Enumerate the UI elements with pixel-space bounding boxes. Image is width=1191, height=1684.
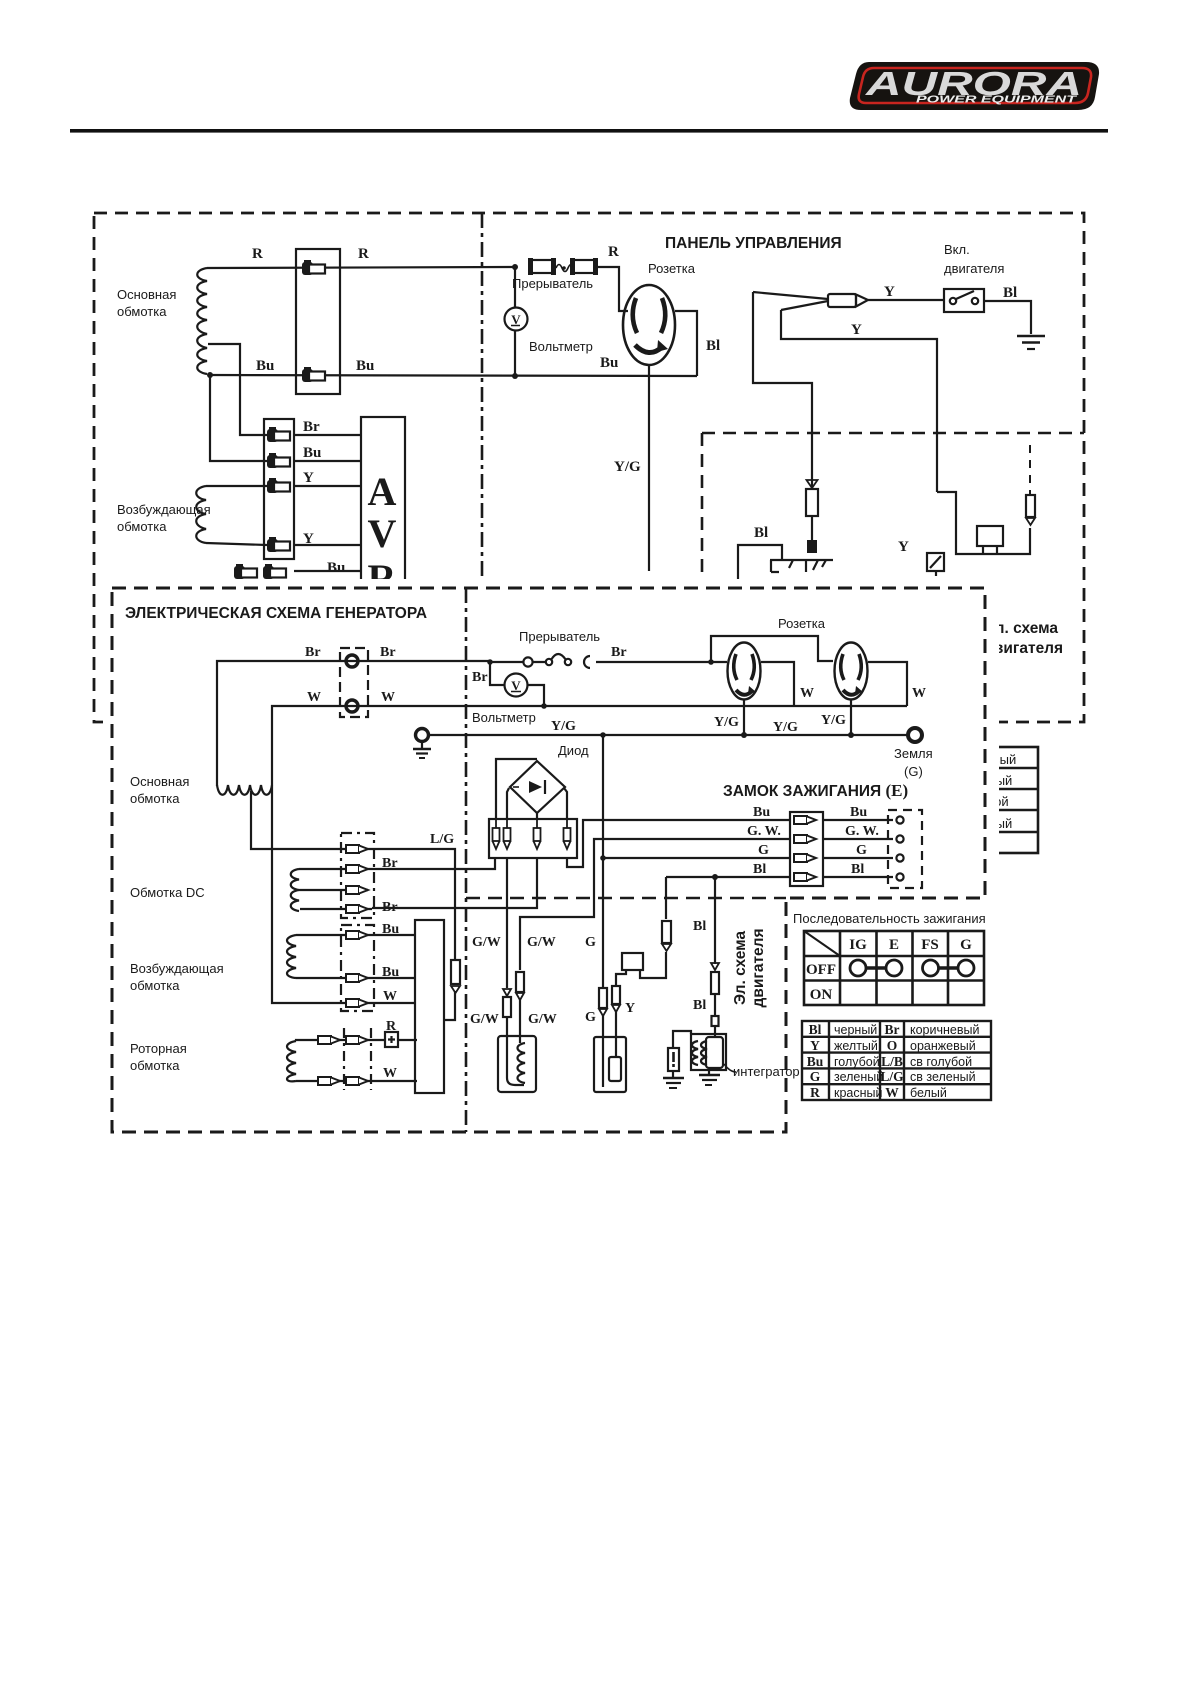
wire W (d2) <box>272 706 907 786</box>
svg-text:ON: ON <box>810 987 833 1003</box>
breaker (d2) <box>490 661 546 663</box>
svg-text:W: W <box>381 690 395 705</box>
svg-text:G: G <box>585 1010 596 1025</box>
connector pins K1 <box>302 260 325 275</box>
wire Y to switch <box>868 299 944 301</box>
svg-text:оранжевый: оранжевый <box>910 1039 976 1053</box>
svg-text:G/W: G/W <box>470 1012 499 1027</box>
svg-text:Y/G: Y/G <box>821 713 846 728</box>
wire Bu bottom from main winding to socket corner <box>209 375 697 376</box>
voltmeter circle (d2) <box>505 674 528 697</box>
main winding coil (d2) <box>217 785 272 795</box>
excitation winding coil (d1) <box>196 486 206 543</box>
diode connector box <box>489 819 577 858</box>
plug terminal <box>807 540 817 553</box>
svg-text:обмотка: обмотка <box>130 978 180 993</box>
svg-text:Bu: Bu <box>807 1054 824 1069</box>
diode symbol <box>529 781 542 793</box>
svg-text:обмотка: обмотка <box>130 791 180 806</box>
wire Br to AVR <box>294 434 361 436</box>
junction R-breaker <box>512 264 518 270</box>
svg-text:Прерыватель: Прерыватель <box>519 629 600 644</box>
svg-text:G: G <box>585 935 596 950</box>
diagram2 internal divider vertical (dash-dot) <box>465 588 468 1132</box>
socket top loop wire <box>711 636 833 662</box>
svg-text:Bu: Bu <box>382 922 399 937</box>
wire diode to Bu row <box>567 820 790 867</box>
svg-text:E: E <box>889 937 899 953</box>
svg-text:белый: белый <box>910 1086 947 1100</box>
colour legend table <box>802 1021 991 1100</box>
svg-text:Y: Y <box>810 1038 820 1053</box>
svg-text:Br: Br <box>611 645 627 660</box>
right connector (engine) <box>1026 495 1035 517</box>
svg-text:OFF: OFF <box>806 962 836 978</box>
svg-text:W: W <box>383 989 397 1004</box>
rotor block dashed columns <box>344 1028 371 1090</box>
junction G wire <box>600 732 606 738</box>
junction Bu <box>207 372 213 378</box>
excitation pins <box>346 931 368 939</box>
svg-text:Y: Y <box>851 322 862 338</box>
wire Bl to ground <box>984 301 1031 334</box>
svg-text:V: V <box>511 312 521 327</box>
svg-text:O: O <box>887 1038 898 1053</box>
diagram2 dashed border <box>112 588 985 1132</box>
OFF contact circles <box>850 960 974 976</box>
svg-text:Bu: Bu <box>382 965 399 980</box>
svg-text:L/G: L/G <box>880 1069 904 1084</box>
svg-text:обмотка: обмотка <box>130 1058 180 1073</box>
diagram1 section divider (dash-dot) <box>481 213 484 722</box>
junction socket loop <box>708 659 714 665</box>
wire R row <box>296 1040 385 1041</box>
svg-text:Роторная: Роторная <box>130 1041 187 1056</box>
svg-text:Прерыватель: Прерыватель <box>512 276 593 291</box>
svg-text:G: G <box>856 843 867 858</box>
ignition lock pins <box>794 816 816 824</box>
svg-text:Bu: Bu <box>753 805 770 820</box>
svg-text:W: W <box>383 1066 397 1081</box>
wire diode to Br row 2 <box>372 858 537 908</box>
socket bottom wire Y/G <box>648 365 650 571</box>
socket1 (d2) <box>728 643 761 700</box>
svg-text:черный: черный <box>834 1023 877 1037</box>
svg-text:Y/G: Y/G <box>773 720 798 735</box>
svg-text:Bl: Bl <box>706 338 720 354</box>
main winding coil (d1) <box>197 268 207 374</box>
svg-text:Вольтметр: Вольтметр <box>472 710 536 725</box>
voltmeter stem (d2) <box>490 662 504 685</box>
svg-text:Br: Br <box>303 419 320 435</box>
wire Bl corner down to stop switch <box>665 877 667 919</box>
svg-text:Bl: Bl <box>753 862 766 877</box>
spark box <box>594 1037 626 1092</box>
wire L/G to regulator <box>444 991 455 1020</box>
wire Bl row <box>666 876 790 878</box>
svg-text:коричневый: коричневый <box>910 1023 979 1037</box>
G wire vertical <box>602 735 604 988</box>
regulator block <box>415 920 444 1093</box>
svg-text:Последовательность зажигания: Последовательность зажигания <box>793 911 986 926</box>
wire Bu2 to AVR <box>294 570 361 572</box>
wire G/W1 long vertical <box>506 858 508 988</box>
connector block K1 (d1) <box>296 249 340 394</box>
DC block pins <box>346 845 368 853</box>
svg-text:Розетка: Розетка <box>778 616 826 631</box>
svg-text:Основная: Основная <box>130 774 189 789</box>
left loop wire <box>753 292 812 487</box>
diagram1 outer dashed border <box>94 213 1084 722</box>
wire Y upper from excitation winding <box>206 485 267 487</box>
wire Bu to AVR <box>294 460 361 462</box>
AVR block <box>361 417 405 657</box>
DC winding coil <box>291 869 301 911</box>
ignition coil box <box>498 1036 536 1092</box>
svg-text:W: W <box>912 686 926 701</box>
svg-text:R: R <box>386 1019 397 1034</box>
svg-text:Bl: Bl <box>1003 285 1017 301</box>
svg-text:желтый: желтый <box>834 1039 878 1053</box>
svg-text:G: G <box>810 1069 821 1084</box>
diagram2 white background <box>103 579 999 1141</box>
diamond right wire <box>564 788 567 819</box>
thermo component <box>668 1048 679 1071</box>
svg-text:Bl: Bl <box>809 1022 822 1037</box>
ground terminal (d2) <box>416 729 429 742</box>
svg-text:L/B: L/B <box>881 1054 903 1069</box>
wire Y lower from excitation winding <box>206 543 267 545</box>
svg-text:(G): (G) <box>904 764 923 779</box>
svg-text:V: V <box>511 678 521 693</box>
ignition lock right dashed box <box>888 810 922 888</box>
svg-text:Возбуждающая: Возбуждающая <box>117 502 211 517</box>
svg-text:Обмотка DC: Обмотка DC <box>130 885 205 900</box>
svg-text:G. W.: G. W. <box>845 824 879 839</box>
voltmeter stem (d1) <box>514 267 516 376</box>
diamond top wire <box>496 759 537 819</box>
tap wire L/G <box>251 791 455 960</box>
svg-text:Bu: Bu <box>303 445 321 461</box>
wire Br row c4 <box>300 908 372 910</box>
tap wire from main winding to Br connector <box>208 344 267 435</box>
svg-text:W: W <box>307 690 321 705</box>
socket1 stem Y/G <box>743 700 745 735</box>
R fuse square <box>385 1032 398 1047</box>
svg-text:R: R <box>608 244 619 260</box>
svg-text:св голубой: св голубой <box>910 1055 972 1069</box>
svg-text:Bu: Bu <box>600 355 618 371</box>
svg-text:Br: Br <box>305 645 321 660</box>
svg-text:зеленый: зеленый <box>834 1070 883 1084</box>
ground under thermo + integrator <box>663 1075 720 1088</box>
svg-text:Земля: Земля <box>894 746 933 761</box>
diamond left wire <box>507 788 509 819</box>
Bl bridge wire <box>738 545 782 588</box>
svg-text:IG: IG <box>849 937 867 953</box>
svg-text:ЭЛЕКТРИЧЕСКАЯ СХЕМА ГЕНЕРАТОРА: ЭЛЕКТРИЧЕСКАЯ СХЕМА ГЕНЕРАТОРА <box>125 605 427 622</box>
dashed wire below ground <box>1029 445 1031 494</box>
svg-text:L/G: L/G <box>430 832 454 847</box>
svg-text:G: G <box>758 843 769 858</box>
diagram1 colour legend table (mostly occluded) <box>849 747 1038 853</box>
connector pins Bu2 row <box>234 564 257 579</box>
svg-text:Эл. схема: Эл. схема <box>732 931 749 1005</box>
junction Bu-bottom <box>512 373 518 379</box>
diagram2 internal divider horizontal <box>466 897 786 900</box>
L/G connector <box>451 960 460 984</box>
svg-text:Br: Br <box>472 670 488 685</box>
header rule <box>70 129 1108 133</box>
socket slot right <box>661 298 665 333</box>
svg-text:двигателя: двигателя <box>750 928 767 1007</box>
wire Y to AVR <box>294 485 361 487</box>
svg-text:интегратор: интегратор <box>733 1064 800 1079</box>
wire diode to Br row <box>372 858 495 869</box>
svg-text:Y: Y <box>625 1001 635 1016</box>
bullet connector (Y wire) <box>828 294 856 307</box>
svg-text:A: A <box>368 469 397 514</box>
wire G.W. row <box>520 839 790 970</box>
svg-text:Y/G: Y/G <box>551 719 576 734</box>
diagram1 engine sub-box dashed top <box>702 432 1084 435</box>
wire Bu from junction down to Bu connector <box>210 375 267 461</box>
wire W row rotor <box>296 1080 417 1082</box>
diagram1 engine sub-box dashed left <box>701 433 704 722</box>
svg-text:Y: Y <box>884 284 895 300</box>
svg-text:ПАНЕЛЬ УПРАВЛЕНИЯ: ПАНЕЛЬ УПРАВЛЕНИЯ <box>665 235 842 252</box>
fuse 2 (breaker d1) <box>573 260 595 273</box>
svg-text:R: R <box>252 246 263 262</box>
fuse 1 (breaker d1) <box>531 260 553 273</box>
svg-text:Bl: Bl <box>693 998 706 1013</box>
svg-text:G/W: G/W <box>472 935 501 950</box>
svg-text:Bl: Bl <box>693 919 706 934</box>
wire Br (d2) <box>217 661 490 786</box>
svg-text:обмотка: обмотка <box>117 519 167 534</box>
svg-text:Br: Br <box>382 900 398 915</box>
svg-text:W: W <box>885 1085 899 1100</box>
earth terminal Земля <box>908 728 922 742</box>
engine stop switch cluster <box>937 492 1030 554</box>
socket2 (d2) <box>835 643 868 700</box>
svg-text:R: R <box>358 246 369 262</box>
Bl vertical to integrator <box>714 877 716 964</box>
Br/W connector block (d2) <box>340 648 368 717</box>
svg-text:Вольтметр: Вольтметр <box>529 339 593 354</box>
wire Br right of breaker <box>596 661 727 663</box>
wire Bu row 2 <box>296 977 415 979</box>
diamond bottom wire <box>536 813 538 819</box>
spark plug body and base <box>770 560 833 572</box>
svg-text:Основная: Основная <box>117 287 176 302</box>
socket bottom arc <box>635 345 662 353</box>
svg-text:Y: Y <box>303 470 314 486</box>
ground symbol small (d2) <box>413 749 431 758</box>
svg-text:V: V <box>368 511 397 556</box>
socket right wire Bl <box>675 311 697 376</box>
integrator assembly <box>691 1034 726 1070</box>
svg-text:ЗАМОК ЗАЖИГАНИЯ (E): ЗАМОК ЗАЖИГАНИЯ (E) <box>723 781 908 800</box>
svg-text:Диод: Диод <box>558 743 589 758</box>
ignition sequence table <box>804 931 984 1005</box>
G/W2 connector <box>516 972 524 992</box>
svg-text:Y: Y <box>898 539 909 555</box>
wire R from main winding to breaker <box>207 267 515 268</box>
svg-text:Y/G: Y/G <box>714 715 739 730</box>
svg-text:обмотка: обмотка <box>117 304 167 319</box>
wire R to socket <box>598 267 628 311</box>
excitation coil (d2) <box>287 935 296 978</box>
diode bridge diamond <box>510 761 565 813</box>
svg-text:Вкл.: Вкл. <box>944 242 970 257</box>
svg-text:голубой: голубой <box>834 1055 880 1069</box>
svg-text:св зеленый: св зеленый <box>910 1070 976 1084</box>
excitation block (dash-dot) <box>341 925 374 1011</box>
svg-text:Bl: Bl <box>851 862 864 877</box>
Y converge wires <box>753 292 828 310</box>
connector on stop-switch riser <box>662 921 671 943</box>
wire Y2 to AVR <box>294 544 361 546</box>
socket2 right wire W <box>868 662 907 706</box>
svg-text:Bu: Bu <box>356 358 374 374</box>
G/W1 connector <box>503 989 511 996</box>
svg-text:Bl: Bl <box>754 525 768 541</box>
svg-text:POWER EQUIPMENT: POWER EQUIPMENT <box>916 95 1077 106</box>
Y connector <box>612 986 620 1004</box>
ground symbol (d1) <box>1017 336 1045 349</box>
svg-text:W: W <box>800 686 814 701</box>
svg-text:FS: FS <box>921 937 939 953</box>
rotor coil <box>287 1041 296 1081</box>
Y lower wire <box>781 310 937 492</box>
switch blade box <box>927 553 944 571</box>
voltmeter to W wire <box>528 685 544 706</box>
svg-text:Возбуждающая: Возбуждающая <box>130 961 224 976</box>
voltmeter circle (d1) <box>505 308 528 331</box>
socket1 right wire W <box>761 662 794 706</box>
connector pins K2 <box>267 427 290 442</box>
stub c3 <box>301 889 368 891</box>
svg-text:G. W.: G. W. <box>747 824 781 839</box>
svg-text:R: R <box>810 1085 820 1100</box>
socket slot left <box>633 298 637 333</box>
connector block K2 (d1) <box>264 419 294 559</box>
connector on plug wire <box>807 480 818 488</box>
wire Y/G main (d2) <box>429 734 908 736</box>
svg-text:G/W: G/W <box>527 935 556 950</box>
wire G row <box>603 857 790 859</box>
stop switch (d2) <box>622 953 643 970</box>
wire W vertical + row <box>272 786 415 1003</box>
socket2 stem Y/G <box>850 700 852 735</box>
svg-text:Розетка: Розетка <box>648 261 696 276</box>
svg-text:Bu: Bu <box>327 560 345 576</box>
svg-text:Bu: Bu <box>256 358 274 374</box>
AURORA logo <box>850 62 1099 110</box>
wire Bu row 1 <box>296 934 415 936</box>
ignition coil winding <box>518 1043 526 1083</box>
breaker wavy link <box>556 265 574 272</box>
svg-text:Y/G: Y/G <box>614 459 641 475</box>
junction Br voltmeter <box>487 659 493 665</box>
ignition lock connector block <box>790 812 893 886</box>
svg-text:G/W: G/W <box>528 1012 557 1027</box>
rotor pins <box>318 1036 340 1044</box>
G connector <box>599 988 607 1008</box>
socket ellipse (d1) <box>623 285 675 365</box>
wire Br row c2 <box>299 868 372 870</box>
DC winding block (dash-dot) <box>341 833 374 918</box>
svg-text:Br: Br <box>885 1022 900 1037</box>
diode box bullet pins <box>493 819 571 849</box>
integrator pointer <box>724 1064 736 1072</box>
svg-text:Br: Br <box>382 856 398 871</box>
svg-text:Y: Y <box>303 531 314 547</box>
engine switch (Вкл. двигателя) <box>944 289 984 312</box>
svg-text:красный: красный <box>834 1086 883 1100</box>
svg-text:G: G <box>960 937 972 953</box>
svg-text:двигателя: двигателя <box>944 261 1004 276</box>
svg-text:Bu: Bu <box>850 805 867 820</box>
svg-text:Br: Br <box>380 645 396 660</box>
